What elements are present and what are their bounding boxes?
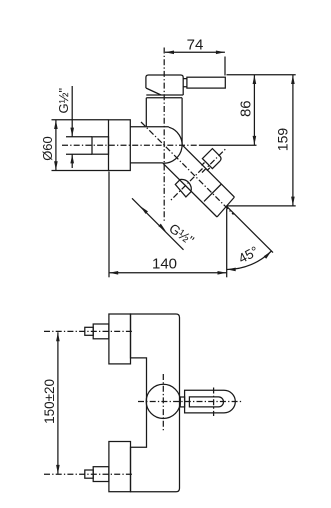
arrowhead O60 top bbox=[54, 120, 58, 129]
arrowhead dim 74 left bbox=[165, 51, 174, 55]
lower hose port dome bbox=[175, 179, 191, 197]
hex extension line top bbox=[66, 136, 92, 138]
horizontal inlet centerline bbox=[62, 144, 199, 146]
dim 140 extension line right / 45deg vertex vertical bbox=[226, 209, 228, 278]
arrowhead G1/2 diagonal upper bbox=[140, 206, 148, 214]
upper outlet connector axis bbox=[202, 149, 226, 173]
arrowhead dim 150+-20 top bbox=[56, 332, 60, 341]
upper outlet connector bbox=[202, 149, 221, 169]
inlet axis solid extension right bbox=[199, 144, 257, 146]
svg-text:74: 74 bbox=[187, 37, 204, 54]
arrowhead dim 150+-20 bottom bbox=[56, 465, 60, 474]
hex extension line bottom bbox=[66, 153, 92, 155]
bottom escutcheon flange front bbox=[109, 442, 131, 492]
spout axis centerline 45deg bbox=[141, 122, 234, 215]
arrowhead dim 86 top bbox=[253, 75, 257, 84]
lever stem connector front bbox=[180, 397, 184, 407]
arrowhead O60 bottom bbox=[54, 161, 58, 170]
extension line right of dim 74 bbox=[224, 57, 226, 76]
45deg dimension arc bbox=[227, 251, 272, 270]
front body outline bbox=[131, 314, 180, 492]
vertical body centerline bbox=[163, 48, 165, 223]
G1/2 lower leader line bbox=[71, 154, 73, 168]
wall pipe bottom line bbox=[130, 162, 163, 164]
top hex tail stub bbox=[85, 327, 93, 335]
upper outlet connector neck bbox=[202, 163, 210, 171]
wall escutcheon flange bbox=[109, 120, 131, 171]
arrowhead dim 159 top bbox=[291, 75, 295, 84]
G1/2 upper leader line bbox=[71, 86, 73, 137]
dimension line 140 bbox=[109, 272, 226, 274]
arrowhead G1/2 diagonal lower bbox=[158, 224, 166, 232]
lever ball-end center mark bbox=[213, 388, 215, 417]
spout tip end face bbox=[217, 197, 234, 217]
lower hose port axis bbox=[171, 169, 203, 201]
svg-text:86: 86 bbox=[237, 100, 254, 117]
bottom inlet axis centerline bbox=[44, 473, 132, 475]
dimension line 150+-20 bbox=[57, 332, 59, 474]
svg-text:Ø60: Ø60 bbox=[40, 136, 55, 161]
spout cross band bbox=[204, 184, 221, 201]
arrowhead dim 140 right bbox=[218, 271, 227, 275]
dimension line 74 bbox=[165, 51, 225, 53]
ball vertical centerline bbox=[162, 374, 164, 431]
bottom hex nipple front bbox=[93, 467, 109, 482]
handle lever rod bbox=[187, 77, 225, 88]
body cylinder left edge bbox=[145, 98, 147, 127]
svg-text:45°: 45° bbox=[236, 243, 261, 266]
top escutcheon flange front bbox=[109, 314, 131, 364]
lever rod front bbox=[189, 397, 223, 407]
handle cap bbox=[146, 75, 183, 95]
svg-text:150±20: 150±20 bbox=[42, 379, 57, 424]
dim 140 extension line left bbox=[108, 172, 110, 278]
wall pipe top line bbox=[130, 126, 169, 128]
cartridge collar line bbox=[146, 97, 182, 99]
body end cap arc bbox=[163, 127, 182, 163]
lever horizontal axis centerline bbox=[138, 401, 243, 403]
dimension line 86 bbox=[253, 75, 255, 145]
svg-text:G½": G½" bbox=[166, 221, 197, 249]
arrowhead dim 74 right bbox=[216, 51, 225, 55]
lever ball joint circle bbox=[146, 384, 180, 418]
bottom hex tail stub bbox=[85, 470, 93, 478]
handle stem connector bbox=[183, 79, 187, 87]
hex union nipple bbox=[92, 137, 109, 154]
top extension line for dims 86 and 159 bbox=[227, 74, 296, 76]
arrowhead 45deg arc upper bbox=[264, 251, 272, 259]
body cylinder right edge bbox=[181, 98, 183, 145]
svg-text:159: 159 bbox=[275, 128, 291, 152]
arrowhead dim 159 bottom bbox=[291, 197, 295, 206]
top hex nipple front bbox=[93, 324, 109, 339]
arrowhead 45deg arc lower bbox=[227, 268, 236, 272]
arrowhead G1/2 upper leader bbox=[70, 128, 74, 137]
dimension line 159 bbox=[292, 75, 294, 206]
O60 extension line bottom bbox=[52, 170, 109, 172]
arrowhead dim 140 left bbox=[109, 271, 118, 275]
spout tip extension line for dims 159 and 45deg bbox=[227, 205, 296, 207]
G1/2 diagonal dimension line bbox=[132, 198, 184, 250]
spout tube top-right edge bbox=[182, 145, 234, 197]
O60 extension line top bbox=[52, 119, 109, 121]
spout tube bottom-left edge bbox=[163, 163, 217, 217]
top inlet axis centerline bbox=[44, 330, 132, 332]
svg-text:G½": G½" bbox=[56, 88, 71, 114]
svg-text:140: 140 bbox=[152, 256, 177, 273]
arrowhead dim 86 bottom bbox=[253, 136, 257, 145]
dimension line O60 bbox=[55, 120, 57, 170]
lever housing front bbox=[185, 390, 236, 413]
arrowhead G1/2 lower leader bbox=[70, 154, 74, 163]
45deg reference ray bbox=[227, 206, 273, 252]
